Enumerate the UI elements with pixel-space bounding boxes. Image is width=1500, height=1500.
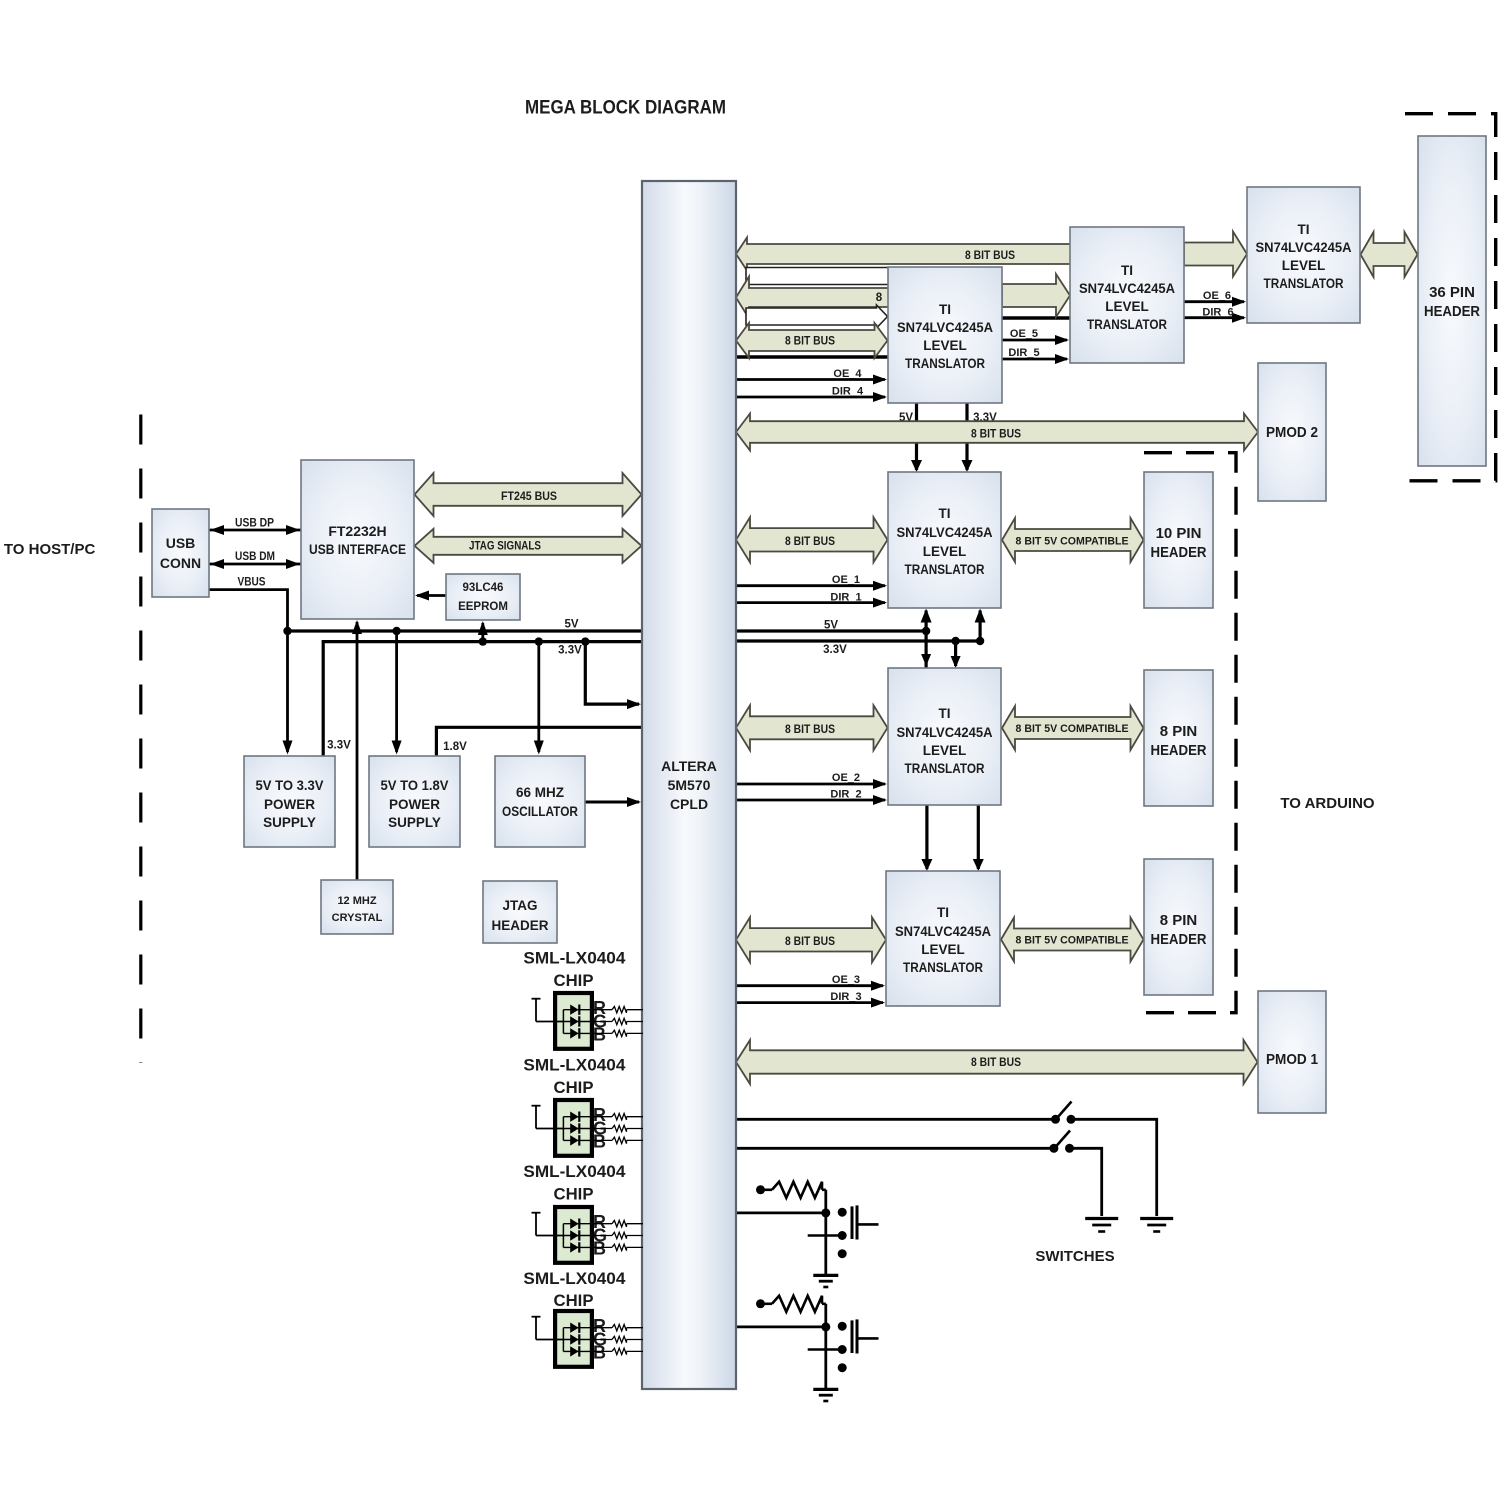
LED chip D1 SML-LX0404: [532, 993, 592, 1049]
svg-text:OSCILLATOR: OSCILLATOR: [502, 804, 578, 819]
bus 8 BIT BUS to PMOD 1: [736, 1040, 1258, 1084]
ground RC network 1: [813, 1275, 838, 1287]
label 8 BIT 5V COMPATIBLE U9: [1016, 935, 1129, 947]
bus FT245 BUS: [415, 473, 642, 516]
block 93LC46 EEPROM U2: [446, 574, 520, 620]
label 8 BIT BUS U7: [785, 536, 835, 548]
block JTAG HEADER J2: [483, 881, 557, 943]
wire OE_6: [1184, 297, 1246, 307]
wire DIR_5: [1002, 354, 1069, 364]
svg-text:OE_2: OE_2: [832, 772, 860, 784]
label 5V left: [564, 619, 578, 631]
svg-text:TO HOST/PC: TO HOST/PC: [4, 541, 96, 558]
svg-text:SML-LX0404: SML-LX0404: [523, 1162, 626, 1181]
label OE_6: [1203, 290, 1231, 302]
wire 5V translator U7 to U8: [921, 609, 932, 669]
resistor R2: [756, 1296, 826, 1312]
wire RC network 1 vertical: [824, 1190, 827, 1276]
svg-text:8 BIT 5V COMPATIBLE: 8 BIT 5V COMPATIBLE: [1016, 536, 1129, 548]
svg-text:TRANSLATOR: TRANSLATOR: [1264, 276, 1344, 291]
wire 3.3V rail right: [736, 639, 980, 642]
wire 5V translator U8 to U9: [921, 805, 932, 871]
svg-text:8 BIT BUS: 8 BIT BUS: [971, 429, 1021, 441]
svg-text:SUPPLY: SUPPLY: [388, 815, 441, 830]
wire switch 2 to ground: [1072, 1148, 1102, 1216]
label 8 BIT BUS PMOD2: [971, 429, 1021, 441]
svg-text:CPLD: CPLD: [670, 796, 708, 812]
switch SW1: [1051, 1102, 1076, 1124]
label DIR_4: [832, 386, 864, 398]
svg-text:EEPROM: EEPROM: [458, 601, 508, 613]
wire oscillator output to CPLD: [585, 797, 641, 807]
svg-text:8 BIT BUS: 8 BIT BUS: [785, 336, 835, 348]
bus 8 BIT BUS row1 CPLD to U5: [736, 238, 1071, 271]
svg-text:SML-LX0404: SML-LX0404: [523, 949, 626, 968]
wire 3.3V to EEPROM: [478, 621, 488, 642]
wire RC network 2 from CPLD: [736, 1322, 830, 1331]
label DIR_3: [830, 991, 861, 1003]
svg-text:8: 8: [876, 292, 883, 304]
svg-text:CRYSTAL: CRYSTAL: [332, 912, 383, 924]
svg-text:DIR_3: DIR_3: [830, 991, 861, 1003]
svg-text:8 PIN: 8 PIN: [1160, 723, 1198, 740]
label 8 BIT 5V COMPATIBLE U8: [1016, 723, 1129, 735]
wire 3.3V into CPLD: [585, 642, 641, 710]
svg-text:OE_5: OE_5: [1010, 328, 1038, 340]
svg-text:DIR_4: DIR_4: [832, 386, 864, 398]
block 10 PIN HEADER J3: [1144, 472, 1213, 608]
wire 1.8V supply output to CPLD: [436, 727, 642, 756]
label 8 BIT BUS row5: [785, 336, 835, 348]
label SML-LX0404 chip 4: [523, 1269, 626, 1310]
label VBUS: [238, 577, 266, 589]
wire 5V rail left: [283, 627, 642, 635]
svg-text:USB DM: USB DM: [235, 551, 275, 563]
node RC network 1: [838, 1249, 847, 1258]
svg-text:SUPPLY: SUPPLY: [263, 815, 316, 830]
svg-text:HEADER: HEADER: [1151, 544, 1207, 561]
svg-text:CHIP: CHIP: [554, 1291, 594, 1310]
svg-text:LEVEL: LEVEL: [1282, 258, 1326, 273]
svg-text:12 MHZ: 12 MHZ: [337, 895, 376, 907]
svg-text:TI: TI: [939, 302, 951, 317]
svg-text:VBUS: VBUS: [238, 577, 266, 589]
dashed boundary 36 pin header region: [1405, 114, 1496, 481]
label 3.3V left: [558, 645, 582, 657]
wire USB DP: [209, 525, 301, 535]
wire 3.3V rail left: [323, 637, 642, 756]
label DIR_6: [1202, 307, 1233, 319]
block 8 PIN HEADER J5: [1144, 859, 1213, 995]
wire 5V from translator U4 to U7: [911, 403, 922, 472]
block 36 PIN HEADER J6: [1418, 136, 1486, 466]
svg-text:DIR_1: DIR_1: [830, 592, 861, 604]
labels R G B chip 1: [593, 998, 607, 1045]
label USB DM: [235, 551, 275, 563]
capacitor C1: [838, 1205, 879, 1239]
svg-text:TRANSLATOR: TRANSLATOR: [903, 960, 983, 975]
label OE_3: [832, 974, 860, 986]
svg-text:B: B: [593, 1132, 606, 1152]
label 8 BIT BUS row1: [965, 250, 1015, 262]
wires R G B with resistors chip 2: [592, 1114, 643, 1144]
block PMOD 1 J8: [1258, 991, 1326, 1113]
wire 3.3V from translator U4 to U7: [962, 403, 973, 472]
svg-text:3.3V: 3.3V: [327, 740, 351, 752]
svg-text:TI: TI: [1121, 263, 1133, 278]
wire switch 1 to ground: [1073, 1119, 1157, 1216]
svg-text:1.8V: 1.8V: [443, 741, 467, 753]
svg-text:8 PIN: 8 PIN: [1160, 912, 1198, 929]
svg-text:8 BIT BUS: 8 BIT BUS: [785, 936, 835, 948]
wire RC network 2 vertical: [824, 1304, 827, 1390]
wire 3.3V into translator U7 bottom: [975, 609, 986, 646]
labels R G B chip 3: [593, 1212, 607, 1259]
wire 5V rail right: [736, 629, 926, 632]
label SML-LX0404 chip 1: [523, 949, 626, 991]
label 8 BIT BUS U9: [785, 936, 835, 948]
label 8 row3: [876, 292, 883, 304]
svg-text:5V: 5V: [824, 620, 838, 632]
labels R G B chip 2: [593, 1105, 607, 1152]
label OE_5: [1010, 328, 1038, 340]
wire switch 2 line from CPLD: [736, 1147, 1052, 1150]
svg-text:CONN: CONN: [160, 555, 201, 571]
svg-text:POWER: POWER: [264, 797, 315, 812]
svg-text:8 BIT BUS: 8 BIT BUS: [965, 250, 1015, 262]
dashed boundary TO ARDUINO: [1144, 453, 1236, 1013]
svg-text:ALTERA: ALTERA: [661, 758, 717, 774]
label 1.8V: [443, 741, 467, 753]
svg-text:SN74LVC4245A: SN74LVC4245A: [897, 525, 993, 540]
block TI SN74LVC4245A LEVEL TRANSLATOR U9: [886, 871, 1000, 1006]
label JTAG SIGNALS: [469, 541, 541, 553]
svg-text:8 BIT 5V COMPATIBLE: 8 BIT 5V COMPATIBLE: [1016, 723, 1129, 735]
node RC network 2: [838, 1363, 847, 1372]
bus 8 BIT BUS CPLD to U9: [736, 917, 886, 962]
wire DIR_2: [736, 795, 887, 805]
svg-text:LEVEL: LEVEL: [923, 743, 967, 758]
svg-text:3.3V: 3.3V: [558, 645, 582, 657]
svg-text:TRANSLATOR: TRANSLATOR: [905, 562, 985, 577]
ground RC network 2: [813, 1389, 838, 1401]
bus 8 BIT BUS CPLD to U8: [736, 705, 888, 750]
bus 8 bit row3 CPLD to U5: [736, 277, 889, 319]
label 3.3V above translator U7: [973, 412, 997, 424]
ground switch 2: [1085, 1219, 1118, 1232]
label 3.3V right: [823, 644, 847, 656]
svg-text:PMOD 2: PMOD 2: [1266, 424, 1318, 441]
bus 8 BIT 5V COMPATIBLE U7 to 10 pin header: [1002, 518, 1144, 562]
svg-text:HEADER: HEADER: [1151, 931, 1207, 948]
svg-text:SN74LVC4245A: SN74LVC4245A: [1256, 240, 1352, 255]
label TO HOST/PC: [4, 541, 96, 558]
wire translator U4 to U5 (thick): [1002, 316, 1070, 319]
wire 3.3V to oscillator input: [534, 642, 544, 755]
block USB CONN J1: [152, 509, 209, 597]
wire VBUS: [209, 590, 293, 755]
block PMOD 2 J7: [1258, 363, 1326, 501]
svg-text:LEVEL: LEVEL: [921, 942, 965, 957]
wire 3.3V translator U8 to U9: [973, 805, 984, 871]
bus 8 BIT BUS to PMOD 2: [736, 414, 1258, 451]
wire OE_4: [736, 375, 887, 385]
svg-text:OE_4: OE_4: [833, 368, 862, 380]
label 8 BIT 5V COMPATIBLE U7: [1016, 536, 1129, 548]
wire OE_3: [736, 981, 885, 991]
block TI SN74LVC4245A LEVEL TRANSLATOR U4: [888, 267, 1002, 403]
svg-text:B: B: [593, 1025, 606, 1045]
bus U6 to 36 pin header: [1361, 232, 1418, 277]
block TI SN74LVC4245A LEVEL TRANSLATOR U7: [888, 472, 1001, 608]
label OE_4: [833, 368, 862, 380]
bus row1 U5 to U6: [1184, 232, 1247, 277]
label SML-LX0404 chip 3: [523, 1162, 626, 1204]
wire DIR_1: [736, 598, 887, 608]
svg-text:USB: USB: [166, 535, 196, 551]
bus white row4 CPLD to U4: [746, 305, 888, 328]
svg-text:SML-LX0404: SML-LX0404: [523, 1269, 626, 1288]
wire OE_5: [1002, 335, 1069, 345]
block 5V TO 3.3V POWER SUPPLY: [244, 756, 335, 847]
svg-text:DIR_6: DIR_6: [1202, 307, 1233, 319]
block 5V TO 1.8V POWER SUPPLY: [369, 756, 460, 847]
bus 8 BIT BUS CPLD to U7: [736, 517, 888, 562]
wire CPLD to translator U4 (thick): [736, 355, 888, 358]
wire RC network 1 tick: [808, 1231, 847, 1240]
block TI SN74LVC4245A LEVEL TRANSLATOR U8: [888, 668, 1001, 805]
label SWITCHES: [1035, 1248, 1114, 1265]
svg-text:93LC46: 93LC46: [463, 582, 504, 594]
label SML-LX0404 chip 2: [523, 1056, 626, 1098]
block 8 PIN HEADER J4: [1144, 670, 1213, 806]
svg-text:LEVEL: LEVEL: [923, 338, 967, 353]
svg-text:LEVEL: LEVEL: [1105, 299, 1149, 314]
block TI SN74LVC4245A LEVEL TRANSLATOR U5: [1070, 227, 1184, 363]
bus 8 BIT 5V COMPATIBLE U9 to 8 pin header: [1001, 918, 1144, 962]
svg-text:USB INTERFACE: USB INTERFACE: [309, 541, 406, 557]
dashed boundary TO HOST/PC: [139, 415, 142, 1064]
block 66 MHZ OSCILLATOR Y2: [495, 756, 585, 847]
label OE_1: [832, 574, 860, 586]
svg-text:OE_1: OE_1: [832, 574, 860, 586]
ground switch 1: [1140, 1219, 1173, 1232]
svg-text:SN74LVC4245A: SN74LVC4245A: [897, 320, 993, 335]
label 8 BIT BUS U8: [785, 724, 835, 736]
block TI SN74LVC4245A LEVEL TRANSLATOR U6: [1247, 187, 1360, 323]
wire 3.3V into translator U8 top: [951, 637, 961, 668]
svg-text:TI: TI: [939, 506, 951, 521]
svg-text:PMOD 1: PMOD 1: [1266, 1051, 1318, 1068]
svg-text:OE_3: OE_3: [832, 974, 860, 986]
wire 12MHz crystal to FT2232H: [352, 620, 362, 880]
label FT245 BUS: [501, 491, 557, 503]
svg-text:8 BIT BUS: 8 BIT BUS: [785, 724, 835, 736]
svg-text:OE_6: OE_6: [1203, 290, 1231, 302]
wire switch 1 line from CPLD: [736, 1118, 1053, 1121]
svg-text:CHIP: CHIP: [554, 971, 594, 990]
svg-text:3.3V: 3.3V: [823, 644, 847, 656]
svg-text:66 MHZ: 66 MHZ: [516, 785, 564, 800]
label OE_2: [832, 772, 860, 784]
bus 8 BIT BUS row5 CPLD to U4: [736, 323, 888, 358]
wires R G B with resistors chip 4: [592, 1325, 643, 1355]
wire 5V to 1.8V supply input: [392, 631, 402, 755]
svg-text:SN74LVC4245A: SN74LVC4245A: [897, 725, 993, 740]
svg-text:HEADER: HEADER: [491, 918, 548, 933]
label 8 BIT BUS PMOD1: [971, 1057, 1021, 1069]
label DIR_5: [1008, 347, 1039, 359]
svg-text:HEADER: HEADER: [1151, 742, 1207, 759]
switch SW2: [1049, 1131, 1074, 1153]
labels R G B chip 4: [593, 1316, 607, 1363]
svg-text:5V TO 1.8V: 5V TO 1.8V: [381, 778, 449, 793]
svg-text:5V TO 3.3V: 5V TO 3.3V: [256, 778, 324, 793]
svg-text:DIR_5: DIR_5: [1008, 347, 1039, 359]
svg-text:FT245 BUS: FT245 BUS: [501, 491, 557, 503]
svg-text:TRANSLATOR: TRANSLATOR: [905, 761, 985, 776]
wire OE_1: [736, 581, 887, 591]
svg-text:8 BIT BUS: 8 BIT BUS: [971, 1057, 1021, 1069]
wires R G B with resistors chip 3: [592, 1221, 643, 1251]
title MEGA BLOCK DIAGRAM: [525, 97, 726, 119]
svg-text:DIR_2: DIR_2: [830, 789, 861, 801]
svg-text:10 PIN: 10 PIN: [1156, 525, 1202, 542]
wire RC network 1 from CPLD: [736, 1208, 830, 1217]
svg-text:CHIP: CHIP: [554, 1185, 594, 1204]
wire RC network 2 tick: [808, 1345, 847, 1354]
capacitor C2: [838, 1319, 879, 1353]
svg-text:TO ARDUINO: TO ARDUINO: [1280, 795, 1375, 812]
svg-text:CHIP: CHIP: [554, 1078, 594, 1097]
svg-text:FT2232H: FT2232H: [328, 523, 386, 539]
svg-text:TI: TI: [937, 905, 949, 920]
resistor R1: [756, 1182, 826, 1198]
wire OE_2: [736, 779, 887, 789]
wire DIR_3: [736, 998, 885, 1008]
svg-text:TRANSLATOR: TRANSLATOR: [1087, 317, 1167, 332]
svg-text:TI: TI: [1298, 222, 1310, 237]
svg-text:SN74LVC4245A: SN74LVC4245A: [1079, 281, 1175, 296]
svg-text:8 BIT 5V COMPATIBLE: 8 BIT 5V COMPATIBLE: [1016, 935, 1129, 947]
svg-text:5V: 5V: [564, 619, 578, 631]
label USB DP: [235, 518, 274, 530]
svg-text:LEVEL: LEVEL: [923, 544, 967, 559]
LED chip D4 SML-LX0404: [532, 1311, 592, 1367]
svg-text:B: B: [593, 1239, 606, 1259]
label TO ARDUINO: [1280, 795, 1375, 812]
wire USB DM: [209, 559, 301, 569]
svg-text:POWER: POWER: [389, 797, 440, 812]
label 5V right: [824, 620, 838, 632]
block ALTERA 5M570 CPLD U3: [642, 181, 736, 1389]
label DIR_1: [830, 592, 861, 604]
svg-text:TI: TI: [939, 706, 951, 721]
svg-text:SN74LVC4245A: SN74LVC4245A: [895, 924, 991, 939]
bus JTAG SIGNALS: [415, 529, 642, 563]
svg-text:8 BIT BUS: 8 BIT BUS: [785, 536, 835, 548]
bus row3 U4 to U5: [1002, 274, 1070, 317]
LED chip D3 SML-LX0404: [532, 1207, 592, 1263]
bus 8 BIT 5V COMPATIBLE U8 to 8 pin header: [1002, 706, 1144, 750]
svg-text:MEGA BLOCK DIAGRAM: MEGA BLOCK DIAGRAM: [525, 97, 726, 119]
wire DIR_4: [736, 392, 887, 402]
svg-text:TRANSLATOR: TRANSLATOR: [905, 356, 985, 371]
LED chip D2 SML-LX0404: [532, 1100, 592, 1156]
svg-text:5M570: 5M570: [668, 777, 711, 793]
block FT2232H USB INTERFACE U1: [301, 460, 414, 619]
svg-text:USB DP: USB DP: [235, 518, 274, 530]
svg-text:SWITCHES: SWITCHES: [1035, 1248, 1114, 1265]
block 12 MHZ CRYSTAL Y1: [321, 880, 393, 934]
svg-text:B: B: [593, 1343, 606, 1363]
label 3.3V at supply output: [327, 740, 351, 752]
svg-text:HEADER: HEADER: [1424, 303, 1480, 320]
label 5V above translator U7: [899, 412, 913, 424]
wire EEPROM to FT2232H: [415, 591, 446, 601]
svg-text:SML-LX0404: SML-LX0404: [523, 1056, 626, 1075]
wires R G B with resistors chip 1: [592, 1007, 643, 1037]
wire DIR_6: [1184, 313, 1246, 323]
bus white row2 CPLD to U4: [746, 268, 889, 285]
label DIR_2: [830, 789, 861, 801]
svg-text:JTAG: JTAG: [502, 898, 537, 913]
svg-text:JTAG SIGNALS: JTAG SIGNALS: [469, 541, 541, 553]
svg-text:36 PIN: 36 PIN: [1429, 284, 1475, 301]
